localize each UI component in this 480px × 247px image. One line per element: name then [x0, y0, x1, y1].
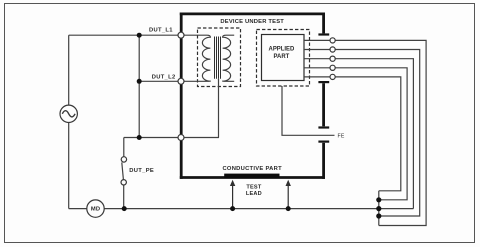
wire switch top stub — [123, 138, 125, 157]
conductive part bar — [224, 174, 279, 178]
svg-text:LEAD: LEAD — [246, 191, 262, 197]
wire stub AP2 — [304, 49, 330, 51]
enclosure box DEVICE UNDER TEST — [180, 13, 325, 179]
node dot test lead left — [230, 206, 235, 211]
svg-text:DUT_PE: DUT_PE — [129, 168, 154, 174]
transformer T1 dashed box — [198, 28, 241, 87]
svg-text:MD: MD — [91, 207, 100, 213]
node dot DUT_L2 — [137, 79, 142, 84]
wire bottom MD to right bus — [104, 208, 413, 210]
wire FE from applied part — [282, 86, 335, 135]
wire shield tap to PE — [218, 79, 220, 138]
wire left rail x=139 — [138, 35, 140, 137]
source V1 sine — [62, 111, 75, 117]
wire source vertical lower — [68, 123, 70, 209]
source V1 (AC) — [60, 105, 77, 122]
terminal DUT_L1 open circle — [178, 32, 184, 38]
capacitor plate B — [318, 81, 329, 83]
DUT box right edge segment 3 — [322, 143, 325, 179]
switch S1 top contact — [121, 157, 126, 162]
wire group: nested loops from terminals to bus — [335, 40, 426, 225]
wire bottom left to MD — [69, 208, 87, 210]
wire bus vertical — [378, 191, 380, 226]
wire terminal 2 loop — [335, 50, 420, 217]
wire terminal 5 loop — [335, 77, 401, 191]
node dot test lead right — [286, 206, 291, 211]
switch blade S1 — [122, 162, 124, 179]
DUT box right edge segment 1 — [322, 13, 325, 34]
svg-text:TEST: TEST — [246, 184, 261, 190]
DUT box left edge — [180, 13, 183, 179]
applied part inner box — [262, 35, 305, 81]
terminal DUT_PE open circle — [178, 135, 184, 141]
wire switch bottom stub — [123, 185, 125, 209]
svg-text:DUT_L1: DUT_L1 — [149, 27, 173, 33]
wire terminal 4 loop — [335, 68, 407, 200]
applied part dashed box — [257, 30, 310, 87]
transformer T1 shield lines — [215, 37, 221, 79]
DUT box bottom edge — [180, 176, 325, 179]
terminal AP2 — [330, 47, 335, 52]
wire source vertical upper — [68, 35, 70, 105]
wire terminal 1 loop — [335, 40, 426, 225]
wire stub AP1 — [304, 39, 330, 41]
transformer T1 secondary winding — [223, 35, 235, 81]
node dot bus 1 — [376, 197, 381, 202]
DUT box top edge — [180, 12, 325, 15]
wire stub AP3 — [304, 58, 330, 60]
capacitor plate A (enclosure gap top) — [318, 33, 329, 35]
node dot MD right — [122, 206, 127, 211]
terminal AP1 — [330, 38, 335, 43]
switch S1 bottom contact — [121, 180, 126, 185]
wire DUT_L1 top from source to transformer — [69, 34, 181, 36]
svg-text:DUT_L2: DUT_L2 — [152, 75, 176, 81]
terminal DUT_L2 open circle — [178, 78, 184, 84]
test lead arrow left — [230, 180, 235, 209]
wire DUT_L2 — [139, 80, 181, 82]
terminal AP4 — [330, 65, 335, 70]
test lead arrow right — [286, 180, 291, 209]
DUT box right edge segment 2 — [322, 83, 325, 126]
wire group: applied part stubs to terminals — [304, 40, 330, 77]
wire stub AP5 — [304, 76, 330, 78]
wire stub AP4 — [304, 67, 330, 69]
terminal AP3 — [330, 56, 335, 61]
svg-text:DEVICE UNDER TEST: DEVICE UNDER TEST — [220, 19, 284, 25]
svg-text:PART: PART — [274, 54, 290, 60]
node dot bus 3 — [376, 213, 381, 218]
terminal AP5 — [330, 74, 335, 79]
svg-text:APPLIED: APPLIED — [269, 46, 295, 52]
capacitor plate C (FE gap top) — [318, 126, 329, 128]
node dot bus 2 — [376, 206, 381, 211]
svg-text:FE: FE — [338, 133, 345, 139]
capacitor plate D (FE gap bottom) — [318, 141, 329, 143]
wire terminal 3 loop — [335, 59, 413, 209]
node dot DUT_PE — [137, 135, 142, 140]
wire group: source, rails and switch wiring — [69, 35, 414, 208]
node dot DUT_L1 — [137, 33, 142, 38]
meter MD — [87, 200, 104, 217]
svg-text:CONDUCTIVE PART: CONDUCTIVE PART — [222, 166, 282, 172]
wire DUT_PE — [124, 137, 219, 139]
transformer T1 primary winding — [181, 35, 210, 81]
